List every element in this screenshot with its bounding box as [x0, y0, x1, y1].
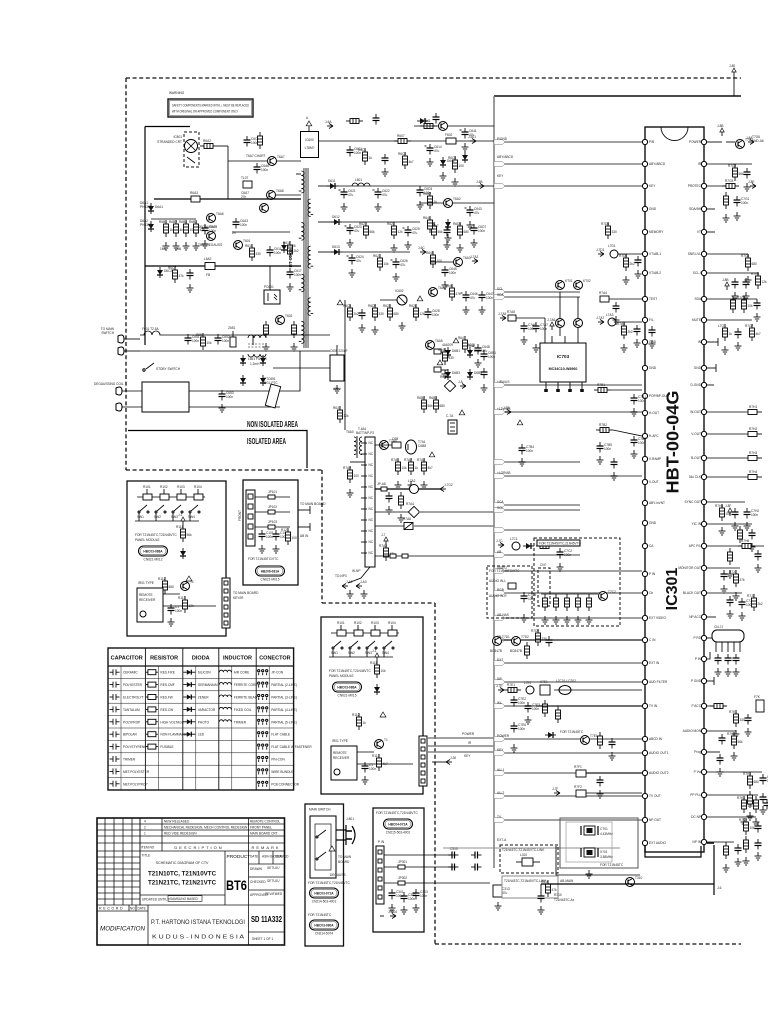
audio switch dashed box FOR T21N45VTC [534, 538, 620, 626]
svg-text:D-GND: D-GND [691, 383, 702, 387]
capacitor C7H2 [744, 508, 760, 519]
svg-text:ISOLATED AREA: ISOLATED AREA [247, 437, 286, 446]
svg-text:R6D6: R6D6 [453, 222, 461, 226]
resistor bank rail [151, 218, 196, 220]
legend symbol TANTALUM [110, 706, 120, 712]
jumper JP301 [398, 865, 405, 869]
ground [734, 212, 741, 220]
svg-text:T6A5: T6A5 [435, 339, 443, 343]
capacitor [609, 738, 616, 749]
ground [495, 902, 502, 910]
svg-text:POP/BP-OUT: POP/BP-OUT [649, 394, 669, 398]
wire pin stub [707, 794, 758, 796]
svg-text:T7E1: T7E1 [590, 734, 598, 738]
stamp HBC03-072A [310, 888, 339, 904]
svg-text:MUTE: MUTE [692, 318, 701, 322]
svg-text:47k: 47k [456, 292, 462, 296]
connector J-6B [476, 180, 484, 189]
svg-text:680: 680 [752, 262, 758, 266]
legend symbol PHOTO [183, 719, 195, 724]
legend symbol WIRE BUNDLE [258, 769, 268, 775]
svg-text:100n: 100n [528, 597, 535, 601]
resistor R623 [373, 254, 389, 271]
svg-text:330: 330 [740, 718, 746, 722]
diode D611 [327, 179, 338, 189]
svg-text:POLYPROP: POLYPROP [123, 720, 140, 724]
capacitor C7A7 [533, 322, 549, 333]
ground [733, 592, 740, 600]
svg-text:100n: 100n [518, 727, 525, 731]
zener arrow [186, 576, 192, 581]
svg-text:R7A4: R7A4 [599, 291, 607, 295]
capacitor C7B2 [631, 436, 647, 447]
svg-text:APC P/L: APC P/L [689, 544, 701, 548]
svg-text:J-6C: J-6C [418, 246, 425, 250]
outer dashed border bottom [435, 943, 741, 945]
diode D6B3 [445, 369, 460, 380]
capacitor C614 [425, 144, 442, 155]
wire pin stub [707, 341, 718, 343]
svg-text:J-7A7: J-7A7 [596, 316, 605, 320]
wire degauss [189, 390, 280, 392]
ground [743, 292, 750, 300]
transistor T7D2 [512, 635, 530, 646]
svg-text:47u: 47u [400, 263, 406, 267]
capacitor C648 [473, 344, 490, 355]
wire IC bottom U [645, 846, 701, 857]
resistor [598, 732, 603, 749]
svg-text:J-1: J-1 [372, 649, 377, 653]
svg-text:BIPOLAR: BIPOLAR [123, 733, 138, 737]
svg-text:10k: 10k [384, 262, 390, 266]
resistor R6C2 [398, 152, 414, 169]
wire 9V rail [420, 202, 443, 204]
svg-text:R7G3: R7G3 [725, 179, 734, 183]
svg-text:NP ACC: NP ACC [689, 615, 702, 619]
wire R6A2 to node [217, 145, 228, 147]
wire pin stub [707, 545, 764, 547]
svg-text:R631: R631 [333, 406, 341, 410]
svg-text:J-7A6: J-7A6 [547, 318, 556, 322]
ground [609, 752, 616, 760]
IC301 right pin PP PLL [690, 792, 706, 797]
svg-text:100n: 100n [261, 168, 268, 172]
svg-text:R651: R651 [196, 333, 204, 337]
IC301 left pin GND [642, 520, 656, 525]
inductor L7A3 cluster [606, 313, 616, 326]
legend symbol FUSIBLE [146, 744, 158, 749]
svg-text:ZENER: ZENER [198, 696, 210, 700]
svg-text:100n: 100n [604, 447, 611, 451]
ground [475, 359, 482, 367]
inductor L7A2 [408, 479, 419, 494]
svg-text:MAIN SWITCH: MAIN SWITCH [309, 808, 331, 812]
legend symbol JP-CON [258, 670, 268, 676]
ground [361, 590, 368, 598]
IC301 left pin ABCD IN [642, 736, 662, 741]
legend symbol CERAMIC [110, 669, 120, 675]
svg-text:TO-NP3: TO-NP3 [335, 574, 347, 578]
svg-text:R6B4: R6B4 [189, 220, 197, 224]
legend symbol ELECTROLYT [110, 694, 120, 700]
capacitor C641 [460, 128, 477, 139]
svg-text:J-7E: J-7E [496, 684, 503, 688]
resistor R7H2 [748, 432, 757, 437]
IC301 right pin DC NP [691, 814, 707, 819]
svg-text:CHECKED: CHECKED [250, 880, 266, 884]
IC301 right pin MONITOR OUT [678, 565, 706, 570]
diode D613 [331, 245, 342, 255]
hatched res row [375, 525, 404, 527]
svg-text:J-30: J-30 [450, 756, 456, 760]
warn triangle D6B [453, 338, 459, 343]
svg-text:10k: 10k [381, 669, 387, 673]
capacitor [715, 654, 722, 665]
ground [755, 564, 762, 572]
transistor [574, 319, 583, 328]
svg-text:D6B3: D6B3 [452, 371, 460, 375]
transistor T602 [276, 314, 293, 325]
wire rect pair rail [441, 351, 448, 353]
resistor R7K1 [729, 710, 745, 727]
svg-text:GND: GND [694, 366, 702, 370]
IC301 left pin ABY-inVNT [642, 500, 665, 505]
diode [462, 152, 468, 163]
diode D606 [281, 242, 296, 253]
svg-text:1k: 1k [170, 228, 174, 232]
capacitor C7E3 [525, 702, 541, 713]
IC301 right pin APC P/L [689, 543, 707, 548]
diode [260, 355, 266, 366]
capacitor [754, 299, 761, 310]
svg-text:BT-00-06: BT-00-06 [288, 248, 293, 267]
svg-text:AND-A6: AND-A6 [752, 139, 764, 143]
svg-text:1k: 1k [729, 332, 733, 336]
capacitor [749, 529, 756, 540]
legend symbol TRIMER [219, 720, 231, 722]
svg-text:R7A2: R7A2 [404, 458, 412, 462]
svg-text:IR01 TYPE: IR01 TYPE [138, 581, 154, 585]
resistor [565, 594, 570, 611]
resistor [525, 642, 530, 659]
svg-text:J-A2: J-A2 [346, 580, 353, 584]
transistor T6A7 [268, 155, 285, 166]
key common wire [135, 520, 199, 522]
legend symbol PARTIAL (5-LINE) [258, 719, 268, 725]
wire audio gnd [540, 884, 542, 893]
ground [467, 221, 474, 229]
resistor R7H5 [715, 504, 731, 521]
transistor [556, 319, 565, 328]
bus wire [494, 461, 580, 463]
diode D6C2 [157, 267, 172, 278]
svg-text:L310: L310 [520, 853, 527, 857]
svg-text:L7C1: L7C1 [510, 537, 518, 541]
svg-text:100n: 100n [274, 251, 281, 255]
ground [611, 472, 618, 480]
svg-text:680: 680 [754, 780, 760, 784]
ground [219, 404, 226, 412]
rail down right [269, 266, 271, 290]
svg-text:SIF: SIF [497, 677, 502, 681]
svg-text:D6A1: D6A1 [155, 205, 163, 209]
wire mains L [164, 334, 330, 336]
resistor R6B5 [434, 349, 441, 354]
resistor R7H3 [748, 456, 757, 461]
supply J-8F [725, 504, 732, 516]
IC301 right pin Prog [694, 749, 706, 754]
AV connector strip [376, 846, 384, 904]
svg-text:W-OUT: W-OUT [690, 410, 701, 414]
legend symbol FLAT CABLE W FASTENER [258, 744, 268, 750]
IC TL431 [395, 289, 407, 305]
svg-text:1k: 1k [369, 156, 373, 160]
svg-text:INDUCTOR: INDUCTOR [223, 656, 252, 662]
svg-text:10k: 10k [750, 826, 756, 830]
svg-text:P.T. HARTONO ISTANA TEKNOLOGI: P.T. HARTONO ISTANA TEKNOLOGI [151, 919, 245, 926]
capacitor [649, 326, 656, 337]
resistor R626 [409, 304, 425, 321]
svg-text:CN215-503-4002: CN215-503-4002 [386, 831, 411, 835]
capacitor [733, 654, 740, 665]
bus wire [494, 296, 580, 298]
wire secondary 1 [318, 185, 330, 187]
svg-text:L7C01-LC202: L7C01-LC202 [556, 679, 576, 683]
svg-text:KT01: KT01 [565, 279, 573, 283]
ground [287, 283, 294, 291]
resistor R625 [383, 304, 399, 321]
ground [442, 370, 449, 378]
svg-text:JP103: JP103 [268, 520, 277, 524]
svg-text:CN?: CN? [540, 563, 547, 567]
capacitor C621 [339, 188, 356, 199]
svg-text:100n: 100n [226, 395, 233, 399]
diode D6A1 [148, 203, 163, 214]
resistor R7D4 [619, 254, 635, 271]
diode [240, 355, 246, 366]
svg-text:KEY: KEY [497, 174, 504, 178]
svg-text:FOR T21N45VTC,21N45VTC: FOR T21N45VTC,21N45VTC [539, 542, 582, 546]
svg-text:NEW RELEASED: NEW RELEASED [164, 820, 190, 824]
svg-text:R7K4: R7K4 [737, 796, 745, 800]
capacitor C302 [401, 892, 416, 903]
IC301 right pin AUDIO MON [683, 728, 707, 733]
legend symbol POLYESTER [110, 682, 120, 688]
capacitor [743, 278, 750, 289]
capacitor [546, 636, 553, 647]
svg-text:TO MAIN BOARD: TO MAIN BOARD [233, 591, 259, 595]
wire pin stub [707, 841, 734, 843]
ground [452, 178, 459, 186]
svg-text:F602: F602 [445, 133, 452, 137]
diode D6B4 [467, 369, 482, 380]
bus wire [494, 795, 642, 797]
svg-text:J-6: J-6 [717, 886, 722, 890]
svg-text:TRIMER: TRIMER [123, 758, 136, 762]
resistor R7B1 [594, 383, 611, 393]
svg-text:2: 2 [144, 826, 146, 830]
svg-text:SW1: SW1 [137, 515, 144, 519]
svg-text:4A6209: 4A6209 [442, 343, 453, 347]
svg-text:NP IN: NP IN [693, 840, 702, 844]
svg-text:R6C1: R6C1 [358, 148, 366, 152]
svg-text:PARTIAL (3-LINE): PARTIAL (3-LINE) [271, 696, 297, 700]
svg-text:R7G2: R7G2 [728, 164, 737, 168]
IC301 right pin W-OUT [690, 409, 706, 414]
svg-text:J-7: J-7 [381, 533, 386, 537]
crystal box [560, 818, 638, 868]
resistor R7D5 [601, 222, 617, 239]
resistor R651 [196, 333, 212, 350]
svg-text:R6C7: R6C7 [168, 266, 176, 270]
legend symbol MET.POLYESTER [110, 768, 120, 774]
legend symbol POLYSTYRENE [110, 744, 120, 750]
svg-text:R104: R104 [194, 485, 202, 489]
key resistor row [331, 632, 399, 634]
bus wire [494, 411, 642, 413]
resistor [728, 548, 733, 565]
svg-text:100n: 100n [486, 296, 493, 300]
svg-text:MONITOR OUT: MONITOR OUT [678, 566, 701, 570]
svg-text:R6B1: R6B1 [440, 375, 448, 379]
resistor R113 [178, 596, 194, 613]
svg-text:T21N45TC,T21N45VTC-LINK: T21N45TC,T21N45VTC-LINK [504, 879, 547, 883]
svg-text:R7H5: R7H5 [715, 504, 723, 508]
ground [760, 806, 767, 814]
svg-text:100n: 100n [240, 223, 247, 227]
svg-text:DIODA: DIODA [192, 656, 210, 662]
IC301 left pin NP OUT [642, 817, 661, 822]
svg-text:L7D1: L7D1 [608, 244, 616, 248]
svg-text:YIC IN: YIC IN [692, 522, 702, 526]
control panel box panel B [321, 617, 423, 794]
svg-text:AUDIO OUT1: AUDIO OUT1 [649, 751, 669, 755]
capacitor C645 [442, 266, 457, 277]
primary rail left [144, 127, 146, 346]
main switch box [305, 804, 344, 946]
svg-text:1k: 1k [363, 721, 367, 725]
posistor PTC651 [264, 377, 281, 408]
svg-text:GERMANIUM: GERMANIUM [198, 683, 218, 687]
ground [533, 344, 540, 352]
svg-text:L78M?: L78M? [305, 146, 315, 150]
capacitor C310 [448, 847, 459, 859]
ground [334, 385, 341, 393]
capacitor [755, 550, 762, 561]
legend table [108, 648, 294, 790]
svg-text:R6B3: R6B3 [429, 396, 437, 400]
svg-text:ABCD IN: ABCD IN [649, 737, 663, 741]
IC301 right pin D-GND [691, 382, 707, 387]
primary rail top [145, 126, 190, 128]
svg-text:FOR T21N45TC: FOR T21N45TC [600, 863, 624, 867]
relay RL801 dashed box [157, 132, 199, 167]
diode [240, 375, 246, 386]
svg-text:SCL: SCL [497, 506, 503, 510]
supply J-1 [372, 649, 379, 661]
IC301 pin-1 notch [661, 127, 688, 141]
ground [753, 818, 760, 826]
capacitor [386, 492, 393, 503]
capacitor C624 [347, 254, 364, 265]
resistor R6C7 [168, 266, 184, 283]
connector T-6A1 BATT strip [356, 427, 375, 567]
svg-text:R7D2: R7D2 [531, 629, 539, 633]
svg-text:PH6309: PH6309 [140, 223, 152, 227]
stamp HB206-081A [256, 566, 285, 582]
ground [725, 668, 732, 676]
svg-text:REMOTE CONTROL: REMOTE CONTROL [250, 820, 280, 824]
svg-text:R102: R102 [160, 485, 168, 489]
resistor [258, 132, 263, 149]
ground [393, 273, 400, 281]
svg-text:BATT/NP-P2: BATT/NP-P2 [356, 431, 374, 435]
wire mains N [140, 350, 330, 352]
svg-text:SCA: SCA [497, 500, 504, 504]
resistor R7A8 [379, 544, 395, 561]
svg-text:R6B2: R6B2 [169, 220, 177, 224]
svg-text:CN-7J: CN-7J [714, 625, 723, 629]
svg-text:1.2mH: 1.2mH [250, 362, 260, 366]
wire secondary 3 [318, 251, 334, 253]
ground [391, 244, 398, 252]
capacitor C101 [259, 530, 274, 541]
svg-text:REMOTE: REMOTE [333, 751, 347, 755]
svg-text:NC: NC [369, 529, 374, 533]
wire T6A8 [276, 194, 301, 196]
ground [405, 241, 412, 249]
capacitor [760, 793, 767, 804]
ground [362, 776, 369, 784]
ground [715, 668, 722, 676]
diode [445, 219, 451, 230]
resistor R7H6 [738, 539, 755, 549]
svg-text:C6B8: C6B8 [418, 444, 426, 448]
svg-text:R607: R607 [397, 134, 405, 138]
resistor R112 [158, 577, 174, 594]
resistor R6B2 [169, 220, 185, 237]
resistor [264, 321, 269, 338]
legend symbol PARTIAL (3-LINE) [258, 694, 268, 700]
ground [347, 590, 354, 598]
svg-text:R7K5: R7K5 [739, 818, 747, 822]
svg-text:SILICON: SILICON [198, 671, 211, 675]
svg-text:DESCRIPTION: DESCRIPTION [174, 845, 223, 850]
svg-text:12k: 12k [748, 804, 754, 808]
svg-text:PARTIAL (5-LINE): PARTIAL (5-LINE) [271, 720, 297, 724]
svg-text:RED VIDE REDESIGN: RED VIDE REDESIGN [164, 832, 197, 836]
diode [374, 684, 380, 695]
svg-text:CN621-M015: CN621-M015 [261, 578, 280, 582]
connector J-7A2 [470, 255, 479, 264]
connector strip [222, 578, 230, 628]
svg-text:EXT IN: EXT IN [649, 661, 660, 665]
capacitor C1 [168, 604, 183, 615]
resistor [748, 791, 753, 808]
svg-text:PARTIAL (2-LINE): PARTIAL (2-LINE) [271, 683, 297, 687]
capacitor [481, 368, 488, 379]
svg-text:100n: 100n [420, 894, 427, 898]
svg-text:NC: NC [369, 540, 374, 544]
inductor L310 [516, 853, 540, 866]
svg-text:T601: T601 [243, 239, 250, 243]
bus wire [494, 662, 642, 664]
supply J-1 [178, 513, 185, 525]
IC301 right pin IN [698, 339, 707, 344]
svg-text:R645: R645 [426, 251, 434, 255]
svg-text:TL07: TL07 [241, 176, 248, 180]
connector J-7F [552, 787, 560, 796]
